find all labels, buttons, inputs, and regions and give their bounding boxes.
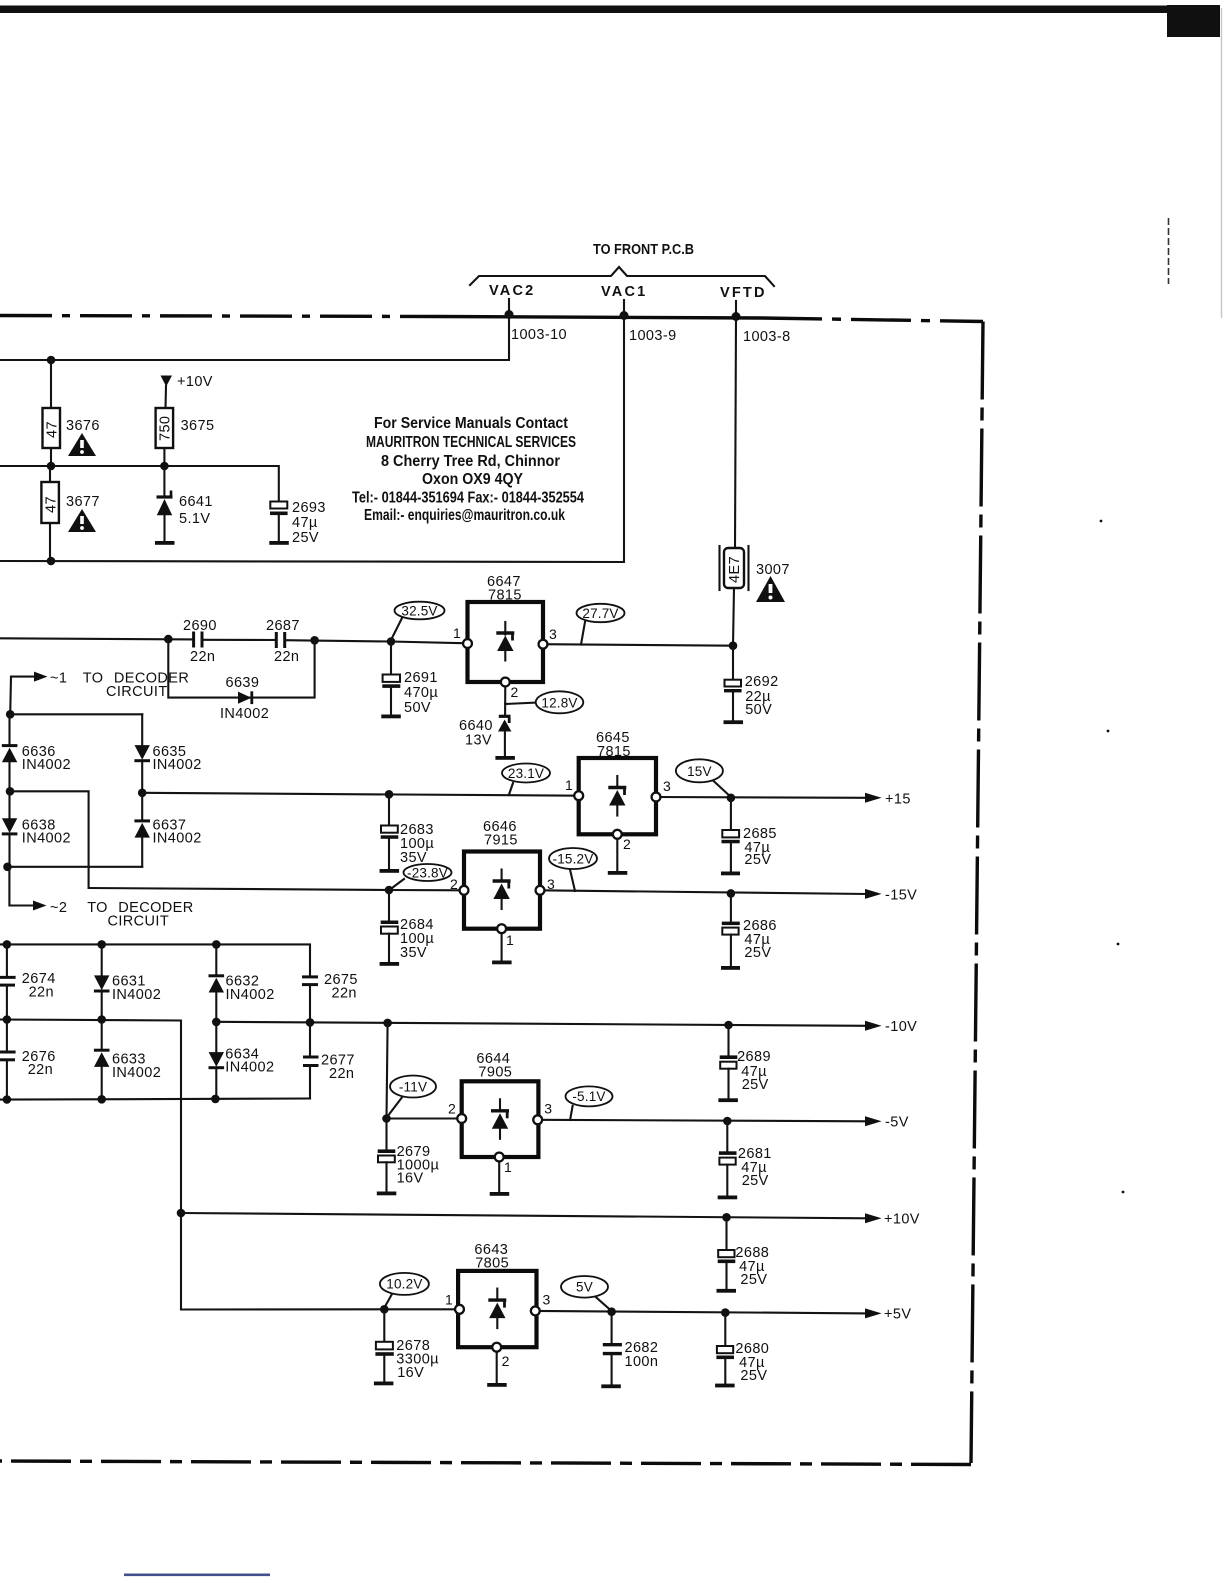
pin 1 6644	[495, 1153, 512, 1175]
capacitor 2680	[716, 1313, 734, 1384]
svg-text:1: 1	[506, 932, 514, 948]
svg-text:TO FRONT P.C.B: TO FRONT P.C.B	[593, 242, 694, 258]
arrow ~1 to decoder	[11, 672, 48, 682]
svg-text:-5.1V: -5.1V	[572, 1089, 605, 1104]
resistor 3676 lead	[50, 360, 52, 408]
node 32.5V	[387, 637, 396, 646]
node bridge1 bottom left	[3, 863, 12, 872]
wire -23.8V rail	[89, 888, 389, 890]
svg-text:IN4002: IN4002	[153, 757, 202, 773]
ground 2679	[377, 1192, 397, 1196]
pin 2 6644	[448, 1101, 466, 1123]
label 2688	[735, 1245, 769, 1288]
pin label 1003-9	[629, 328, 677, 344]
capacitor 2693	[270, 502, 288, 542]
node bridge1 mid right	[138, 789, 147, 798]
label ~2 TO DECODER CIRCUIT	[50, 900, 194, 930]
label 6645 7815	[596, 730, 631, 760]
wire +5V feed	[181, 1308, 460, 1310]
label 6635	[153, 744, 202, 773]
warning triangle 3007	[756, 576, 785, 602]
pin 3 6647	[539, 626, 557, 649]
wire +15 rail	[656, 796, 867, 799]
svg-text:25V: 25V	[742, 1077, 769, 1093]
capacitor 2676	[0, 1020, 16, 1100]
voltage regulator 6646	[464, 852, 540, 929]
arrow +15	[865, 792, 911, 808]
node	[310, 636, 319, 645]
pin 1 6645	[565, 777, 583, 800]
node	[306, 1018, 315, 1027]
wire 4E7 to node	[733, 588, 734, 646]
pin 1 6643	[445, 1292, 464, 1314]
voltage regulator 6644	[462, 1081, 539, 1157]
svg-text:3676: 3676	[66, 418, 100, 434]
svg-text:MAURITRON TECHNICAL SERVICES: MAURITRON TECHNICAL SERVICES	[366, 434, 576, 451]
node	[3, 1015, 12, 1024]
ground 2684	[380, 962, 400, 966]
label 6639	[220, 675, 269, 722]
margin speck 1	[1100, 520, 1103, 523]
node VAC2	[505, 310, 514, 319]
dash-dot border top left segment	[0, 316, 437, 317]
resistor 3676 bottom lead	[50, 448, 52, 466]
wire bridge2 bottom rail	[0, 1099, 310, 1100]
svg-text:22n: 22n	[329, 1066, 354, 1082]
pin 2 6645	[613, 830, 631, 852]
svg-text:2: 2	[511, 684, 519, 700]
svg-text:25V: 25V	[742, 1173, 769, 1189]
label 6634	[225, 1047, 274, 1076]
svg-text:2691: 2691	[404, 670, 438, 686]
node	[383, 1019, 392, 1028]
label +10V	[177, 374, 213, 390]
zener diode 6641	[157, 491, 173, 542]
margin speck 2	[1107, 730, 1110, 733]
svg-text:2: 2	[623, 836, 631, 852]
label 6641	[179, 494, 213, 527]
capacitor 2682	[603, 1312, 622, 1385]
svg-text:32.5V: 32.5V	[401, 604, 437, 619]
warning triangle 3676	[68, 433, 96, 456]
svg-text:2693: 2693	[292, 500, 326, 516]
label 6636	[22, 744, 71, 773]
wire to pin2	[389, 889, 464, 891]
node bridge1 mid left	[6, 787, 15, 796]
pin 1 6646	[497, 924, 514, 948]
svg-text:5V: 5V	[576, 1280, 593, 1295]
svg-text:IN4002: IN4002	[112, 1065, 161, 1081]
zener 6640 lead	[504, 682, 506, 715]
capacitor 2681	[719, 1121, 737, 1196]
label 6631	[112, 974, 161, 1004]
svg-text:IN4002: IN4002	[226, 987, 275, 1003]
margin speck 3	[1117, 943, 1120, 946]
diode 6631	[94, 944, 110, 1019]
oval -23.8V	[390, 864, 452, 890]
node bottom rail	[47, 557, 56, 566]
wire 23.1V rail	[10, 791, 89, 888]
top page rule bar	[0, 5, 1220, 37]
ground 2678	[374, 1382, 394, 1386]
label TO FRONT P.C.B	[593, 242, 694, 258]
wire VAC1 drop to box bottom	[0, 316, 624, 563]
svg-text:Oxon OX9 4QY: Oxon OX9 4QY	[422, 471, 523, 488]
oval 12.8V	[505, 691, 583, 713]
pin label 1003-8	[743, 329, 791, 345]
capacitor 2686	[722, 893, 740, 966]
svg-text:~2: ~2	[50, 900, 67, 916]
svg-text:35V: 35V	[400, 945, 427, 961]
label 6632	[226, 974, 275, 1004]
diode 6639	[238, 691, 252, 704]
svg-text:47: 47	[43, 496, 59, 513]
svg-text:22n: 22n	[29, 985, 54, 1001]
capacitor 2692	[724, 646, 742, 721]
resistor 3676	[43, 408, 61, 448]
ground 6644 pin1	[490, 1157, 510, 1196]
arrow -15V	[865, 888, 917, 904]
label 2678	[396, 1338, 439, 1381]
svg-text:12.8V: 12.8V	[541, 695, 577, 710]
VAC2 tick wire	[508, 299, 510, 313]
node -11V	[382, 1114, 391, 1123]
svg-text:6639: 6639	[226, 675, 260, 691]
diode 6638	[2, 791, 18, 867]
label ~1 TO DECODER CIRCUIT	[50, 671, 189, 701]
ground 6643 pin2	[487, 1347, 507, 1387]
brace to front pcb	[470, 267, 774, 286]
svg-text:+10V: +10V	[177, 374, 213, 390]
node	[164, 635, 173, 644]
svg-text:4E7: 4E7	[727, 556, 743, 583]
label 2686	[743, 918, 777, 961]
svg-text:10.2V: 10.2V	[386, 1277, 422, 1292]
node +10V tee	[177, 1209, 186, 1218]
pin circle overlays	[455, 639, 660, 1352]
label 2692	[745, 674, 779, 718]
label 2677	[321, 1053, 355, 1083]
svg-text:470µ: 470µ	[404, 685, 438, 701]
svg-text:Email:- enquiries@mauritron.co: Email:- enquiries@mauritron.co.uk	[364, 507, 565, 524]
svg-text:100n: 100n	[625, 1354, 659, 1370]
label 6643 7805	[474, 1242, 509, 1272]
label 2675	[324, 972, 358, 1002]
label 6647 7815	[487, 574, 522, 604]
svg-text:22n: 22n	[332, 986, 357, 1002]
svg-text:15V: 15V	[687, 764, 712, 779]
svg-text:25V: 25V	[744, 852, 771, 868]
pin 2 6643	[492, 1343, 509, 1369]
svg-text:2689: 2689	[737, 1049, 771, 1065]
node junction top-left rail	[47, 356, 56, 365]
node 27.7V	[729, 641, 738, 650]
svg-text:3: 3	[544, 1101, 552, 1117]
diode 6635	[134, 714, 150, 793]
svg-text:25V: 25V	[744, 945, 771, 961]
svg-text:-15V: -15V	[885, 888, 917, 904]
label 2682	[625, 1340, 659, 1370]
blue footer underline artifact	[124, 1574, 270, 1577]
arrow +10V	[865, 1212, 920, 1228]
label 2679	[397, 1144, 440, 1187]
node	[211, 1095, 220, 1104]
wire bridge1 top	[10, 713, 142, 715]
svg-text:3007: 3007	[756, 562, 790, 578]
svg-text:50V: 50V	[404, 700, 431, 716]
svg-text:VFTD: VFTD	[720, 285, 767, 301]
wire bridge1 bottom	[8, 866, 143, 868]
label 2693	[292, 500, 326, 546]
fuse resistor 3007 4E7	[720, 546, 749, 590]
capacitor 2691	[382, 642, 400, 715]
ground 2685	[721, 872, 740, 876]
node 2680 tap	[721, 1308, 730, 1317]
node	[47, 462, 56, 471]
svg-text:7905: 7905	[478, 1065, 512, 1081]
svg-text:-5V: -5V	[885, 1115, 909, 1131]
capacitor 2687	[276, 632, 284, 648]
net label VAC2	[489, 283, 535, 299]
warning triangle 3677	[68, 509, 96, 532]
svg-text:CIRCUIT: CIRCUIT	[106, 684, 168, 700]
label 3007	[756, 562, 790, 578]
ground 2689	[718, 1098, 738, 1102]
voltage regulator 6643	[458, 1271, 536, 1347]
wire +5V rail	[535, 1311, 866, 1314]
svg-text:1: 1	[504, 1159, 512, 1175]
svg-text:16V: 16V	[397, 1365, 424, 1381]
node VAC1	[620, 311, 629, 320]
label 2689	[737, 1049, 771, 1093]
svg-text:8 Cherry Tree Rd, Chinnor: 8 Cherry Tree Rd, Chinnor	[381, 453, 560, 470]
node	[212, 1018, 221, 1027]
node	[212, 940, 221, 949]
pin 1 6647	[453, 625, 472, 648]
oval 23.1V	[502, 764, 550, 795]
diode 6637	[134, 793, 150, 867]
svg-text:3: 3	[543, 1292, 551, 1308]
node	[97, 940, 106, 949]
svg-text:2692: 2692	[745, 674, 779, 690]
capacitor 2679	[378, 1119, 396, 1192]
node +10V cap tap	[722, 1213, 731, 1222]
+10V supply symbol	[161, 376, 173, 409]
diode 6634	[209, 1022, 225, 1099]
node	[160, 462, 169, 471]
wire bypass loop	[168, 639, 314, 698]
svg-text:-23.8V: -23.8V	[407, 865, 448, 880]
svg-text:7915: 7915	[484, 833, 518, 849]
pin 2 6647	[501, 678, 519, 700]
resistor 3677 leads	[49, 466, 51, 561]
label 6637	[153, 818, 202, 847]
svg-text:25V: 25V	[292, 530, 319, 546]
resistor 3677	[41, 482, 59, 523]
node	[97, 1095, 106, 1104]
wire ~1 stub	[9, 677, 12, 715]
label 2681	[738, 1146, 772, 1189]
svg-text:2: 2	[502, 1353, 510, 1369]
oval -11V	[387, 1076, 436, 1118]
svg-text:22n: 22n	[274, 649, 299, 665]
label 2684	[400, 917, 434, 961]
svg-text:1: 1	[565, 777, 573, 793]
svg-text:25V: 25V	[740, 1272, 767, 1288]
svg-text:23.1V: 23.1V	[508, 766, 544, 781]
arrow ~2 to decoder	[33, 901, 47, 911]
capacitor 2685	[722, 798, 740, 872]
service address text block	[352, 415, 584, 524]
label 6646 7915	[483, 819, 518, 849]
pin 3 6643	[531, 1292, 551, 1316]
net label VAC1	[601, 284, 647, 300]
svg-text:IN4002: IN4002	[22, 831, 71, 847]
dash-dot border right vertical	[971, 322, 983, 1464]
margin speck 4	[1122, 1191, 1125, 1194]
label 2685	[743, 826, 777, 868]
svg-text:47: 47	[45, 421, 61, 438]
wire cap to node	[285, 640, 391, 641]
label 6633	[112, 1052, 161, 1082]
arrow +5V	[865, 1307, 911, 1323]
wire ~2 stub	[9, 867, 33, 906]
oval 5V	[561, 1276, 611, 1311]
capacitor 2684	[381, 890, 399, 962]
diode 6632	[209, 944, 225, 1022]
node 10.2V	[380, 1305, 389, 1314]
right page edge artifact	[1221, 8, 1223, 318]
svg-text:25V: 25V	[740, 1368, 767, 1384]
svg-text:~1: ~1	[50, 671, 67, 687]
svg-text:50V: 50V	[745, 702, 772, 718]
wire mid rail of snubber box	[0, 466, 279, 501]
oval 10.2V	[380, 1273, 429, 1308]
wire bridge2 mid left	[0, 1020, 181, 1310]
node -15V	[727, 889, 736, 898]
node	[3, 1095, 12, 1104]
svg-text:47µ: 47µ	[292, 515, 318, 531]
svg-text:1: 1	[453, 625, 461, 641]
wire to 6647 pin1	[391, 642, 467, 644]
svg-text:750: 750	[158, 416, 174, 441]
pin 2 6646	[450, 876, 468, 895]
node 2683 tap	[385, 790, 394, 799]
wire +10V rail	[181, 1213, 867, 1218]
svg-text:16V: 16V	[397, 1171, 424, 1187]
ground 2693	[269, 541, 289, 545]
label 6638	[22, 818, 71, 847]
capacitor 2683	[381, 794, 399, 869]
svg-text:1003-8: 1003-8	[743, 329, 791, 345]
ground 6645 pin2	[608, 834, 628, 875]
label 3677	[66, 494, 100, 510]
voltage regulator 6647	[468, 602, 544, 682]
svg-text:27.7V: 27.7V	[582, 606, 618, 621]
ground 2692	[724, 720, 744, 724]
VAC1 tick wire	[623, 300, 625, 313]
node	[3, 940, 12, 949]
ground 2686	[721, 966, 740, 970]
svg-text:CIRCUIT: CIRCUIT	[108, 914, 170, 930]
ground 2683	[380, 869, 400, 873]
ground 6646 pin1	[492, 929, 512, 965]
diode 6636	[2, 746, 18, 792]
svg-text:IN4002: IN4002	[153, 831, 202, 847]
node 2682 tap	[607, 1307, 616, 1316]
svg-text:1003-10: 1003-10	[511, 327, 567, 343]
wire bridge2 top rail	[0, 944, 310, 975]
wire mid to 6645	[142, 793, 579, 796]
resistor 3675 bottom lead	[163, 448, 165, 466]
wire -5V rail	[538, 1120, 867, 1122]
ground 2691	[381, 715, 401, 719]
wire bridge1 left upper	[8, 714, 10, 745]
svg-text:VAC2: VAC2	[489, 283, 535, 299]
capacitor 2678	[375, 1309, 393, 1381]
svg-text:VAC1: VAC1	[601, 284, 647, 300]
node +15	[727, 794, 736, 803]
label 6640	[459, 718, 493, 749]
diode 6633	[94, 1020, 110, 1100]
svg-text:IN4002: IN4002	[225, 1060, 274, 1076]
svg-text:IN4002: IN4002	[112, 987, 161, 1003]
svg-text:1: 1	[445, 1292, 453, 1308]
node -5V	[723, 1117, 732, 1126]
node VFTD	[732, 312, 741, 321]
label 2683	[400, 822, 434, 866]
zener 6641 top lead	[163, 466, 165, 496]
net label VFTD	[720, 285, 767, 301]
zener diode 6640	[498, 716, 511, 756]
pin 3 6644	[533, 1101, 552, 1125]
svg-text:-15.2V: -15.2V	[553, 851, 594, 866]
capacitor 2677	[303, 1022, 319, 1098]
label 2676	[22, 1049, 56, 1078]
svg-text:IN4002: IN4002	[22, 757, 71, 773]
voltage regulator 6645	[579, 758, 656, 834]
ground 2682	[601, 1384, 621, 1388]
node	[97, 1015, 106, 1024]
dash-dot border bottom	[0, 1461, 971, 1465]
svg-text:3675: 3675	[181, 418, 215, 434]
label 3675	[181, 418, 215, 434]
wire -10V rail	[216, 1022, 866, 1026]
svg-text:13V: 13V	[465, 733, 492, 749]
label 2687	[266, 618, 300, 665]
node bridge1 top left	[6, 710, 15, 719]
svg-text:22n: 22n	[28, 1062, 53, 1078]
oval 27.7V	[577, 604, 625, 645]
wire pin3 to VFTD node	[543, 644, 733, 646]
wire -15V rail	[540, 890, 867, 894]
svg-text:3: 3	[549, 626, 557, 642]
label 2690	[183, 618, 217, 665]
VFTD tick wire	[735, 301, 737, 313]
oval -5.1V	[566, 1086, 613, 1120]
capacitor 2688	[718, 1217, 736, 1289]
arrow -5V	[865, 1115, 909, 1131]
oval 15V	[676, 759, 731, 797]
label 2674	[22, 971, 56, 1001]
svg-text:3677: 3677	[66, 494, 100, 510]
arrow -10V	[865, 1019, 917, 1035]
svg-text:2: 2	[448, 1101, 456, 1117]
svg-text:For Service Manuals Contact: For Service Manuals Contact	[374, 415, 569, 432]
node	[724, 1021, 733, 1030]
svg-text:+5V: +5V	[884, 1307, 911, 1323]
oval 32.5V	[391, 602, 445, 640]
